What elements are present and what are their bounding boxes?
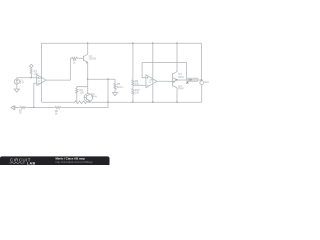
junction dots	[30, 42, 202, 108]
wire Q1 emitter down to node	[87, 62, 89, 79]
svg-text:PNP: PNP	[178, 86, 184, 90]
ground below V1	[14, 89, 19, 92]
wire rail B middle	[26, 107, 54, 109]
logo zigzag + LAB	[10, 162, 25, 164]
wire chain bottom to line A	[132, 95, 134, 103]
wire line A right segment	[89, 101, 201, 103]
op-amp OA2	[146, 75, 157, 88]
svg-text:10k: 10k	[135, 82, 140, 86]
svg-text:NPN: NPN	[178, 75, 184, 79]
wire Q2 bottom stem	[87, 101, 89, 103]
resistor R7 (on rail B left)	[20, 106, 27, 108]
resistor R2b (chain lower)	[132, 88, 134, 94]
resistor R2a (chain upper)	[132, 80, 134, 86]
wire Q1 collector up to rail	[87, 43, 89, 54]
op-amp OA1	[37, 75, 46, 86]
voltage source V1	[14, 78, 19, 89]
wire op-amp2 output to bases	[157, 80, 173, 82]
svg-text:2N390: 2N390	[89, 56, 97, 60]
resistor R8 (on rail B mid)	[54, 106, 61, 108]
wire base bars link	[172, 79, 174, 81]
wire R3 to Q1 base	[78, 57, 83, 59]
wire Q4 collector to line A	[176, 88, 178, 102]
wire node down to Q2 circle top	[87, 79, 89, 93]
wire op-amp1 minus stub down to rail B	[34, 83, 37, 107]
svg-text:8ohm: 8ohm	[117, 85, 124, 89]
svg-text:100: 100	[80, 90, 85, 94]
svg-text:http://circuitlab.com/c/nv59wg: http://circuitlab.com/c/nv59wg/	[56, 160, 93, 164]
resistor R4 (horizontal on line A)	[73, 101, 89, 104]
wire op-amp1 output to Q1 base resistor	[46, 58, 70, 80]
wire V1 to op-amp input	[17, 77, 37, 79]
wire resistor chain vertical top	[132, 43, 134, 79]
wire bottom line A	[42, 101, 74, 103]
net flag out (gray box)	[186, 78, 198, 84]
svg-text:op: op	[38, 80, 41, 82]
node wire y=79	[88, 78, 115, 80]
wire rail end down + ammeter	[200, 43, 204, 102]
svg-text:10k: 10k	[34, 71, 39, 75]
transistor Q1 NPN	[84, 54, 88, 63]
wire output node	[177, 79, 202, 81]
ground flag left (port)	[11, 105, 15, 109]
resistor R3 (horizontal to Q1 base)	[70, 57, 78, 59]
svg-text:op: op	[149, 82, 152, 84]
transistor Q2 (circle BJT)	[84, 93, 92, 101]
wire crossing vertical x=152.7	[152, 43, 154, 102]
wire left feedback vertical crossing op-amp	[41, 43, 43, 102]
wire Q3 collector to rail	[176, 43, 178, 71]
footer logo bar	[0, 156, 110, 165]
resistor R1 vertical from supply	[30, 68, 32, 78]
wire node vertical x=107.9	[107, 79, 109, 102]
svg-text:5 V: 5 V	[20, 81, 24, 85]
wire chain middle to op-amp2 minus	[132, 86, 134, 89]
svg-text:out: out	[189, 79, 193, 82]
wire top rail	[41, 42, 201, 44]
svg-text:Merlo / Class AB amp: Merlo / Class AB amp	[56, 156, 86, 160]
transistor Q3 NPN (top of pair)	[173, 72, 177, 81]
svg-text:AM1: AM1	[204, 81, 209, 84]
svg-text:LAB: LAB	[27, 161, 36, 165]
resistor R5 vertical to ground	[114, 79, 116, 92]
ground below R5	[112, 93, 117, 96]
svg-text:NPN: NPN	[91, 94, 97, 98]
wire rail B right + corner up to line A	[62, 102, 108, 107]
supply flag VCC	[30, 64, 34, 67]
transistor Q4 PNP (bottom of pair)	[173, 80, 177, 88]
svg-text:10k: 10k	[135, 91, 140, 95]
wire op-amp2 plus feedback loop	[142, 63, 187, 80]
wire resistor R6 jog	[77, 87, 88, 89]
component labels (tiny gray text)	[19, 54, 210, 115]
wire bottom rail B with corner up	[15, 107, 20, 109]
resistor R6 vertical	[76, 88, 78, 102]
